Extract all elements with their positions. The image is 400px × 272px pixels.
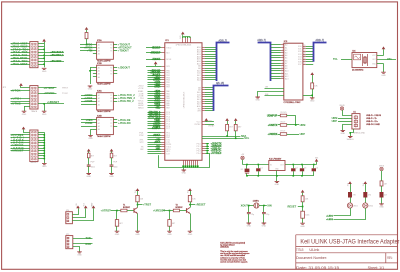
bus AD[0..7] at IC3 left bbox=[258, 43, 271, 82]
svg-text:LED1: LED1 bbox=[353, 205, 358, 207]
resistor R10 pull-up at IC3 bbox=[310, 72, 314, 75]
svg-text:A3: A3 bbox=[98, 50, 100, 53]
svg-text:IC2 LF33ABV: IC2 LF33ABV bbox=[269, 158, 282, 161]
pin stubs IC6B bbox=[93, 119, 97, 121]
svg-text:+LED1: +LED1 bbox=[326, 215, 334, 217]
wire IC5A left nets bbox=[80, 44, 93, 46]
svg-text:Y1: Y1 bbox=[110, 68, 112, 70]
svg-text:A1: A1 bbox=[98, 67, 100, 70]
svg-text:Y1: Y1 bbox=[110, 120, 112, 122]
svg-text:+TDOOUT: +TDOOUT bbox=[151, 48, 160, 50]
svg-text:R5 1K5: R5 1K5 bbox=[281, 112, 287, 114]
svg-text:GND: GND bbox=[88, 138, 93, 140]
resistor base pull-down at T2 bbox=[169, 211, 171, 220]
svg-text:A8: A8 bbox=[285, 65, 287, 68]
oscillator IC4 body bbox=[352, 53, 377, 68]
ground GND below IC1 bbox=[183, 168, 185, 170]
bus A[8..15] at IC3 right bbox=[314, 43, 327, 62]
wire JP1 right pin stubs bbox=[38, 43, 44, 45]
svg-text:GND: GND bbox=[255, 100, 260, 102]
wire JP4 pin2 to VCC bbox=[72, 208, 85, 217]
svg-text:D1: D1 bbox=[241, 169, 243, 171]
bus AD[0..7] at IC1 bbox=[217, 43, 230, 82]
svg-text:+RESET: +RESET bbox=[153, 135, 161, 137]
svg-text:IC6B: IC6B bbox=[97, 115, 102, 117]
svg-text:ULink: ULink bbox=[309, 248, 319, 252]
svg-text:4K7: 4K7 bbox=[238, 127, 241, 129]
wire IC1 to bus A[8..15] bbox=[205, 87, 214, 89]
svg-text:Sheet: 1/1: Sheet: 1/1 bbox=[368, 266, 385, 270]
connector JP4 3-pin power header bbox=[66, 212, 73, 224]
ground GND below pull-down T1 bbox=[115, 231, 120, 232]
svg-text:VSTBY: VSTBY bbox=[194, 124, 201, 126]
svg-text:PC7: PC7 bbox=[166, 128, 170, 130]
power VCC arrow above LED1 bbox=[348, 181, 352, 184]
ground GND below JP3 bbox=[44, 161, 46, 163]
junction dot crystal right bbox=[263, 205, 265, 207]
svg-text:1: 1 bbox=[282, 44, 283, 46]
wire R4 to C8 bbox=[111, 158, 113, 165]
svg-text:TVCC: TVCC bbox=[62, 93, 68, 95]
svg-text:3V3: 3V3 bbox=[363, 183, 365, 186]
junction dot reset node bbox=[302, 206, 304, 208]
junction dot shield bbox=[349, 132, 351, 134]
svg-text:74AHC125PW: 74AHC125PW bbox=[97, 110, 111, 113]
voltage regulator IC2 body bbox=[269, 161, 285, 171]
svg-text:Date: 31.05.05 15:15: Date: 31.05.05 15:15 bbox=[296, 266, 339, 270]
capacitor C8 bbox=[110, 165, 114, 166]
diode D1 bbox=[246, 165, 248, 169]
resistor series LED1 bbox=[350, 184, 352, 192]
svg-text:PB7: PB7 bbox=[166, 87, 170, 89]
resistor base pull-down at T1 bbox=[116, 211, 118, 220]
svg-text:GND: GND bbox=[381, 75, 386, 77]
junction dot at R6 output bbox=[295, 124, 297, 126]
buffer IC IC6B 74AHC125 bbox=[97, 117, 114, 134]
svg-text:+JTAG-DO: +JTAG-DO bbox=[118, 122, 131, 125]
crystal Q1 bbox=[254, 203, 259, 208]
supply circle VBUS at filter bbox=[380, 167, 383, 170]
svg-text:+XOUT: +XOUT bbox=[154, 142, 161, 144]
svg-text:22p: 22p bbox=[251, 214, 254, 216]
junction dots JP3 right bbox=[44, 134, 46, 136]
svg-text:XIN: XIN bbox=[267, 203, 271, 207]
wire output net +RESET bbox=[190, 204, 195, 206]
svg-text:A2: A2 bbox=[98, 47, 100, 50]
wire +JTAG-SRST branch bbox=[44, 61, 64, 63]
wire +UTVCC right of JP2 bbox=[38, 93, 57, 95]
wire R3 to C7 bbox=[88, 158, 90, 165]
svg-text:GND: GND bbox=[300, 226, 305, 228]
svg-text:C1: C1 bbox=[260, 167, 262, 169]
pin stubs IC1 right middle bbox=[202, 121, 205, 123]
wire XOUT to crystal bbox=[248, 205, 254, 207]
svg-text:GND: GND bbox=[42, 71, 47, 73]
svg-text:A7: A7 bbox=[285, 62, 287, 65]
svg-text:+UTRST: +UTRST bbox=[44, 86, 55, 90]
svg-text:AD[0..7]: AD[0..7] bbox=[257, 39, 266, 42]
junction dots power rail top bbox=[246, 164, 248, 166]
svg-text:A3: A3 bbox=[98, 125, 100, 128]
ground GND at IC4 bbox=[381, 72, 386, 73]
svg-text:12MHz: 12MHz bbox=[253, 200, 259, 202]
power VCC arrow at JP1 bbox=[42, 39, 46, 42]
svg-text:UDMPUP: UDMPUP bbox=[267, 114, 278, 117]
svg-text:Keil ULINK USB-JTAG Interface: Keil ULINK USB-JTAG Interface Adapter bbox=[300, 238, 400, 245]
svg-text:Y2: Y2 bbox=[110, 98, 112, 100]
svg-text:XT1: XT1 bbox=[387, 58, 392, 61]
wire JP2 pin1 from VCC bbox=[21, 86, 30, 88]
wire +URESET right of JP2 bbox=[38, 103, 64, 105]
resistor base series T1 bbox=[117, 210, 121, 212]
ground GND emitter T2 bbox=[188, 231, 193, 232]
svg-text:CY62256LL-70NC: CY62256LL-70NC bbox=[284, 102, 301, 104]
wire UDP to USB bbox=[338, 121, 352, 123]
svg-text:21: 21 bbox=[304, 61, 306, 63]
svg-text:3V3: 3V3 bbox=[135, 190, 137, 193]
LED diode LED1 bbox=[350, 198, 352, 203]
ground GND power rail bbox=[276, 176, 278, 181]
svg-text:A3: A3 bbox=[285, 52, 287, 55]
svg-text:+JTAG-RTCK_T: +JTAG-RTCK_T bbox=[50, 53, 64, 57]
svg-text:17: 17 bbox=[304, 50, 306, 52]
svg-text:Y3: Y3 bbox=[110, 126, 112, 128]
svg-text:+TCK: +TCK bbox=[138, 88, 144, 90]
wire JP3 pin1 from VCC bbox=[24, 129, 30, 132]
svg-text:Y2: Y2 bbox=[110, 123, 112, 125]
resistor R1 pull-up left of IC5A bbox=[85, 27, 89, 30]
wire JP3 right vertical net bbox=[44, 132, 46, 161]
pin stubs IC3 right bbox=[303, 46, 306, 48]
junction dot IC5B bbox=[89, 70, 91, 72]
resistor R3 bbox=[88, 152, 90, 154]
ground GND at USB pin4 bbox=[341, 130, 346, 131]
wire oscillator OUT bbox=[377, 59, 396, 61]
svg-text:A11: A11 bbox=[285, 72, 288, 75]
memory IC3 CY62256 body bbox=[284, 43, 303, 100]
buffer IC IC5B 74AHC125 bbox=[97, 65, 114, 82]
power VCC arrow left of IC1 bbox=[154, 61, 158, 64]
svg-text:VBUS: VBUS bbox=[379, 165, 385, 167]
svg-text:GND: GND bbox=[86, 176, 91, 178]
svg-text:IC5B: IC5B bbox=[97, 63, 102, 65]
ground GND below JP5 bbox=[77, 252, 82, 253]
svg-text:10: 10 bbox=[281, 67, 283, 69]
svg-text:11: 11 bbox=[281, 70, 283, 72]
svg-text:3: 3 bbox=[282, 49, 283, 51]
junction dot SDA pull-up bbox=[226, 135, 228, 137]
svg-text:22p: 22p bbox=[266, 214, 269, 216]
svg-text:+RESET: +RESET bbox=[195, 202, 206, 206]
junction dot crystal left bbox=[248, 205, 250, 207]
svg-text:RXD: RXD bbox=[86, 242, 92, 246]
svg-text:13: 13 bbox=[281, 75, 283, 77]
svg-text:+RTCKOUT: +RTCKOUT bbox=[150, 52, 161, 54]
svg-text:9: 9 bbox=[282, 64, 283, 66]
wire JP1 right vertical net bbox=[44, 42, 46, 68]
wire IC6B enable vertical to ground bbox=[90, 129, 92, 135]
ground GND below IC6B input bbox=[88, 136, 93, 137]
junction dot R1 to IC5A pin1 bbox=[86, 44, 88, 46]
svg-text:I/O7: I/O7 bbox=[298, 64, 302, 66]
capacitor C2 bbox=[293, 165, 295, 169]
resistor collector pull-up T1 bbox=[137, 191, 139, 195]
wire IC3 OE bbox=[265, 88, 284, 90]
svg-text:SHIELD: SHIELD bbox=[347, 139, 355, 141]
svg-text:GND: GND bbox=[42, 114, 47, 116]
wire SCL from IC1 bbox=[202, 138, 244, 140]
buffer IC IC5A 74AHC125 bbox=[97, 42, 114, 59]
resistor collector pull-up T2 bbox=[190, 191, 192, 195]
resistor R12 VBUS filter bbox=[381, 171, 383, 181]
wire IC3 WE bbox=[265, 95, 284, 97]
svg-text:4: 4 bbox=[282, 51, 283, 53]
power VCC arrow 3V3 output bbox=[315, 159, 319, 162]
ground GND below JP2 right bbox=[44, 104, 46, 111]
capacitor C3 bbox=[302, 165, 304, 169]
capacitor C4 bbox=[313, 165, 315, 169]
svg-text:+UTMS: +UTMS bbox=[11, 102, 21, 106]
svg-text:A4: A4 bbox=[98, 128, 100, 131]
svg-text:100n: 100n bbox=[305, 215, 309, 217]
svg-text:GND: GND bbox=[262, 226, 267, 228]
svg-text:TRST: TRST bbox=[62, 88, 69, 90]
svg-text:GND: GND bbox=[77, 254, 82, 256]
svg-text:SCLK: SCLK bbox=[166, 59, 172, 61]
svg-text:IC5A: IC5A bbox=[97, 39, 102, 42]
svg-text:A1: A1 bbox=[285, 46, 287, 49]
svg-text:R6 27: R6 27 bbox=[281, 122, 286, 124]
svg-text:100n: 100n bbox=[114, 166, 118, 168]
wire LED1 to net +LED1 bbox=[334, 208, 351, 215]
svg-text:4K7: 4K7 bbox=[229, 127, 232, 129]
wire RESET label bbox=[298, 206, 303, 208]
svg-text:16: 16 bbox=[304, 48, 306, 50]
power VCC arrow at reset RC bbox=[301, 190, 305, 193]
svg-text:Y2: Y2 bbox=[110, 48, 112, 50]
resistor R9 pull-up on SCL bbox=[234, 118, 238, 121]
buffer IC IC6A 74AHC125 bbox=[97, 93, 114, 110]
ground GND at IC3 CE bbox=[255, 97, 260, 98]
wire IC6A left nets bbox=[81, 95, 93, 97]
transistor T1 BC850C bbox=[134, 208, 138, 214]
svg-text:A5: A5 bbox=[285, 57, 287, 60]
oscillator inner sine box bbox=[354, 54, 361, 60]
svg-text:2005-05-31: 2005-05-31 bbox=[220, 247, 229, 249]
svg-text:+JDGOUT: +JDGOUT bbox=[118, 67, 130, 70]
svg-text:Y3: Y3 bbox=[110, 51, 112, 53]
svg-text:+UTCK: +UTCK bbox=[11, 89, 21, 93]
svg-text:A10: A10 bbox=[285, 70, 288, 73]
wire IC3 CS2 to pull-up bbox=[303, 95, 312, 97]
svg-text:XOUT: XOUT bbox=[241, 203, 249, 207]
ground GND emitter T1 bbox=[135, 231, 140, 232]
svg-text:+UTCK: +UTCK bbox=[154, 87, 161, 89]
svg-text:GND: GND bbox=[88, 89, 93, 91]
wire SDA from IC1 bbox=[202, 136, 240, 138]
svg-text:270: 270 bbox=[368, 195, 371, 197]
junction dot at R10 bottom bbox=[311, 95, 313, 97]
svg-text:UDP: UDP bbox=[332, 120, 338, 123]
svg-text:3V3: 3V3 bbox=[208, 120, 211, 122]
power VCC arrow above IC1 bbox=[181, 32, 185, 35]
connector JP1 20-pin JTAG header bbox=[30, 42, 38, 68]
svg-text:6: 6 bbox=[282, 57, 283, 59]
pin stubs IC1 lower right bbox=[202, 143, 206, 145]
wire JP4 pin1 to VCC bbox=[72, 208, 78, 214]
svg-text:VBAT: VBAT bbox=[91, 202, 94, 208]
wire JP3 left nets bbox=[11, 134, 30, 136]
pin stubs IC5B bbox=[93, 67, 97, 69]
svg-text:3V3: 3V3 bbox=[187, 190, 189, 193]
svg-text:TXD: TXD bbox=[86, 236, 91, 240]
svg-text:OUT: OUT bbox=[280, 165, 284, 167]
wire emitter T2 bbox=[190, 214, 192, 232]
power VCC arrow at JP2 bbox=[19, 83, 23, 86]
svg-text:AD[0..7]: AD[0..7] bbox=[316, 39, 325, 42]
wire C9 to ground bbox=[302, 218, 304, 223]
svg-text:SHIELD-GND: SHIELD-GND bbox=[353, 133, 365, 135]
connector X1 USB body bbox=[352, 114, 360, 129]
wire power rail bottom bbox=[247, 175, 314, 177]
svg-text:100n: 100n bbox=[91, 166, 95, 168]
capacitor C9 reset bbox=[301, 211, 305, 218]
ground GND below pull-down T2 bbox=[167, 231, 172, 232]
junction dot SCL pull-up bbox=[235, 138, 237, 140]
power VCC arrow above LED2 bbox=[364, 181, 368, 184]
svg-text:A1: A1 bbox=[98, 119, 100, 122]
junction dots power rail bottom bbox=[246, 175, 248, 177]
wire +JTAG-RTCK_T branch bbox=[44, 55, 64, 57]
svg-text:SEL0: SEL0 bbox=[138, 107, 144, 109]
svg-text:3V3: 3V3 bbox=[84, 203, 86, 206]
svg-text:JTAG: JTAG bbox=[32, 66, 37, 69]
wire JP3 right pin stubs bbox=[38, 132, 44, 134]
wire +UTRST right of JP2 bbox=[38, 87, 57, 89]
svg-text:GND: GND bbox=[247, 226, 252, 228]
svg-text:Document Number:: Document Number: bbox=[296, 256, 327, 260]
wire UDM to USB bbox=[338, 118, 352, 120]
svg-text:3V3: 3V3 bbox=[180, 36, 182, 39]
power VCC arrow 3 at JP4 bbox=[92, 206, 96, 209]
svg-text:GND: GND bbox=[341, 133, 346, 135]
wire collector T1 bbox=[137, 205, 139, 208]
svg-text:A4: A4 bbox=[98, 53, 100, 56]
svg-text:uPSD3233B-40U6: uPSD3233B-40U6 bbox=[184, 91, 186, 108]
svg-text:TRACE: TRACE bbox=[31, 110, 38, 113]
pin stubs IC1 bottom bbox=[183, 160, 185, 165]
power VCC arrow 2 at JP4 bbox=[84, 206, 88, 209]
ground GND below C8 bbox=[109, 174, 114, 175]
svg-text:A2: A2 bbox=[98, 70, 100, 73]
svg-text:R7 27: R7 27 bbox=[281, 131, 286, 133]
svg-text:20: 20 bbox=[304, 58, 306, 60]
svg-text:A4: A4 bbox=[98, 76, 100, 79]
svg-text:+UDMPUP: +UDMPUP bbox=[151, 128, 160, 130]
svg-text:GND: GND bbox=[109, 176, 114, 178]
svg-text:19: 19 bbox=[304, 55, 306, 57]
svg-text:and do not ask Keil for suppor: and do not ask Keil for support. bbox=[220, 261, 248, 264]
svg-text:8: 8 bbox=[282, 62, 283, 64]
wire USB pin4 to GND bbox=[343, 125, 352, 131]
svg-text:C2: C2 bbox=[295, 167, 297, 169]
svg-text:A2: A2 bbox=[98, 122, 100, 125]
connector JP2 14-pin header bbox=[30, 86, 38, 109]
svg-text:+UTRST: +UTRST bbox=[101, 208, 112, 212]
LED diode LED2 bbox=[365, 198, 367, 203]
svg-text:A1: A1 bbox=[98, 94, 100, 97]
junction dot collector T1 bbox=[137, 204, 139, 206]
junction dot JP2 right bbox=[43, 103, 45, 105]
svg-text:+RXD: +RXD bbox=[155, 149, 160, 151]
power VCC arrow 1 at JP4 bbox=[76, 206, 80, 209]
ground GND below C6 bbox=[262, 223, 267, 224]
pin stubs IC6A bbox=[93, 95, 97, 97]
svg-text:5: 5 bbox=[282, 54, 283, 56]
svg-text:+UTMS: +UTMS bbox=[84, 100, 93, 103]
resistor R11 reset pull-up bbox=[302, 193, 304, 196]
svg-text:AD[0..7]: AD[0..7] bbox=[219, 40, 228, 43]
resistor base series T2 bbox=[170, 210, 174, 212]
ground GND below C7 bbox=[86, 174, 91, 175]
svg-text:15: 15 bbox=[304, 45, 306, 47]
svg-text:74AHC125PW: 74AHC125PW bbox=[97, 60, 111, 63]
svg-text:GND: GND bbox=[167, 234, 172, 236]
wire JP2 left nets bbox=[11, 90, 30, 92]
svg-text:USB-P- / D-: USB-P- / D- bbox=[366, 118, 377, 120]
power VCC arrow at JP3 bbox=[22, 127, 26, 130]
svg-text:7: 7 bbox=[282, 59, 283, 61]
svg-text:GND: GND bbox=[22, 114, 27, 116]
svg-text:VSTBY: VSTBY bbox=[208, 126, 215, 128]
power VCC arrow at T1 bbox=[136, 188, 140, 191]
svg-text:2: 2 bbox=[282, 46, 283, 48]
oscillator inner crystal symbol bbox=[363, 54, 368, 66]
svg-text:USB-P+ / D+: USB-P+ / D+ bbox=[366, 121, 379, 123]
pin stubs IC1 right AD bus group bbox=[202, 47, 205, 49]
svg-text:PA7: PA7 bbox=[166, 106, 170, 109]
svg-text:+LED2: +LED2 bbox=[326, 219, 334, 221]
svg-text:+SEL: +SEL bbox=[155, 107, 161, 109]
pin stubs IC5A bbox=[93, 44, 97, 46]
svg-text:C3: C3 bbox=[304, 167, 306, 169]
microcontroller IC1 uPSD3233B body bbox=[165, 43, 202, 161]
wire emitter T1 bbox=[137, 214, 139, 232]
svg-text:+UTVCC: +UTVCC bbox=[44, 91, 55, 95]
svg-text:OUT: OUT bbox=[372, 59, 376, 61]
svg-text:WE: WE bbox=[265, 94, 269, 96]
svg-text:OE: OE bbox=[265, 87, 269, 89]
svg-text:TCL: TCL bbox=[333, 58, 338, 61]
pin stubs IC1 right A8-15 group bbox=[202, 87, 205, 89]
supply circle 5V input bbox=[241, 156, 244, 159]
svg-text:74AHC125PW: 74AHC125PW bbox=[97, 83, 111, 86]
svg-text:uPSD3233B-40U6: uPSD3233B-40U6 bbox=[176, 45, 192, 47]
wire VBUS to USB pin1 bbox=[343, 110, 352, 115]
power VCC arrow at IC4 bbox=[382, 46, 386, 49]
svg-text:TARGET: TARGET bbox=[30, 161, 38, 164]
wire bus to IC3 left pins bbox=[271, 44, 281, 46]
ground GND below JP1 bbox=[42, 68, 47, 69]
wire IC1 bottom rail bbox=[159, 153, 210, 168]
svg-text:3V3: 3V3 bbox=[348, 183, 350, 186]
svg-text:+TDIOUT: +TDIOUT bbox=[118, 50, 129, 53]
svg-text:3V3: 3V3 bbox=[315, 157, 318, 159]
svg-text:270: 270 bbox=[353, 195, 356, 197]
ground GND shield bbox=[348, 137, 353, 138]
svg-text:UDM: UDM bbox=[300, 124, 306, 127]
svg-text:A13: A13 bbox=[285, 78, 288, 81]
